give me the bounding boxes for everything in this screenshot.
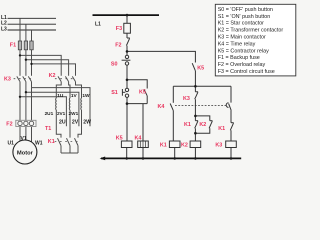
- svg-text:F2 = Overload relay: F2 = Overload relay: [218, 62, 266, 68]
- svg-text:F2: F2: [6, 122, 12, 128]
- svg-text:K3 = Main contactor: K3 = Main contactor: [218, 35, 266, 41]
- svg-text:K2: K2: [181, 143, 188, 149]
- svg-text:1W: 1W: [82, 93, 90, 99]
- svg-text:K1: K1: [160, 143, 167, 149]
- svg-text:V1: V1: [21, 136, 27, 142]
- svg-text:K1 = Star contactor: K1 = Star contactor: [218, 21, 264, 27]
- svg-text:2W: 2W: [83, 120, 91, 126]
- svg-text:S1 = 'ON' push button: S1 = 'ON' push button: [218, 14, 271, 20]
- svg-text:2U: 2U: [59, 120, 66, 126]
- svg-text:1U: 1U: [57, 93, 64, 99]
- svg-text:K3: K3: [183, 96, 190, 102]
- svg-text:2U1: 2U1: [45, 111, 54, 116]
- svg-text:T1: T1: [45, 126, 51, 132]
- svg-text:K2: K2: [199, 122, 206, 128]
- svg-text:K2 = Transformer contactor: K2 = Transformer contactor: [218, 28, 284, 34]
- svg-text:F3 = Control circuit fuse: F3 = Control circuit fuse: [218, 69, 275, 75]
- svg-text:K3: K3: [4, 77, 11, 83]
- svg-text:S1: S1: [111, 90, 118, 96]
- svg-text:K4 = Time relay: K4 = Time relay: [218, 41, 256, 47]
- svg-text:U1: U1: [8, 140, 15, 146]
- svg-text:K2: K2: [49, 73, 56, 79]
- svg-text:S0: S0: [111, 62, 118, 68]
- svg-text:F1: F1: [10, 42, 16, 48]
- svg-text:L1: L1: [95, 21, 101, 27]
- svg-text:K1: K1: [184, 122, 191, 128]
- svg-text:K5: K5: [116, 136, 123, 142]
- svg-text:F3: F3: [116, 26, 122, 32]
- svg-text:K1: K1: [48, 139, 55, 145]
- svg-text:F1 = Backup fuse: F1 = Backup fuse: [218, 55, 260, 61]
- svg-text:S0 = 'OFF' push button: S0 = 'OFF' push button: [218, 7, 273, 13]
- svg-text:K3: K3: [215, 143, 222, 149]
- svg-text:K4: K4: [135, 136, 142, 142]
- svg-text:2V: 2V: [72, 120, 79, 126]
- svg-text:F2: F2: [115, 42, 121, 48]
- svg-text:K5 = Contractor relay: K5 = Contractor relay: [218, 48, 269, 54]
- svg-text:K1: K1: [218, 126, 225, 132]
- svg-text:L3: L3: [1, 27, 7, 33]
- svg-text:K5: K5: [139, 90, 146, 96]
- svg-text:1V: 1V: [71, 93, 78, 99]
- svg-text:Motor: Motor: [17, 151, 34, 157]
- svg-text:K4: K4: [158, 104, 165, 110]
- svg-text:W1: W1: [35, 140, 43, 146]
- svg-text:2W1: 2W1: [69, 111, 79, 116]
- svg-text:K5: K5: [197, 65, 204, 71]
- svg-text:2V1: 2V1: [57, 111, 66, 116]
